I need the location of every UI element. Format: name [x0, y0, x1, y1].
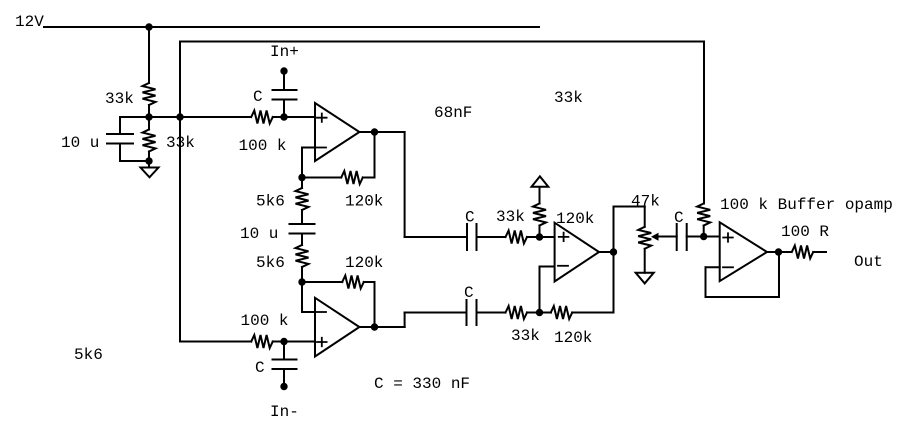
node feedback B	[298, 278, 305, 285]
wire cap bottom to ground node	[120, 160, 149, 162]
wire lower node to opamp C inv	[539, 267, 541, 313]
wire opamp A output	[359, 131, 404, 133]
wire 33k to bias node	[148, 105, 150, 117]
capacitor C lower path	[466, 300, 468, 325]
wire 120k to output A	[363, 177, 375, 179]
svg-text:33k: 33k	[105, 90, 134, 108]
node bias right	[176, 113, 183, 120]
node In- terminal	[280, 383, 287, 390]
capacitor 10u bias	[119, 117, 121, 134]
capacitor 10 u chain	[301, 210, 303, 224]
wire 33k to node	[527, 236, 555, 238]
svg-text:100 R: 100 R	[781, 223, 829, 241]
resistor 100k buffer bias	[697, 204, 710, 226]
svg-text:In-: In-	[270, 403, 299, 421]
wire 100k to opamp B	[273, 341, 315, 343]
svg-text:C: C	[674, 209, 684, 227]
resistor 120k lower feedback	[551, 306, 572, 319]
op-amp C middle	[555, 223, 599, 282]
wire buffer feedback	[705, 267, 707, 297]
wire output C up	[613, 207, 615, 253]
resistor 120k feedback B	[342, 276, 364, 289]
node 12V junction	[145, 23, 152, 30]
wire 12V rail	[44, 26, 539, 28]
svg-text:120k: 120k	[345, 193, 383, 211]
resistor 100 R output	[792, 246, 813, 259]
svg-text:C: C	[464, 284, 474, 302]
resistor 5k6 upper	[296, 188, 309, 210]
resistor 33k lower path	[506, 306, 528, 319]
node opamp A output	[371, 128, 378, 135]
svg-text:C: C	[253, 88, 263, 106]
svg-text:C: C	[465, 209, 475, 227]
wire cap to 33k	[477, 236, 506, 238]
wire 12V to 33k	[148, 27, 150, 83]
capacitor C buffer coupling	[676, 224, 678, 250]
resistor 33k upper bias	[143, 83, 156, 105]
wire 33k to lower node	[527, 312, 551, 314]
node feedback A	[298, 174, 305, 181]
svg-text:C: C	[255, 359, 265, 377]
wire lower path jog	[375, 326, 405, 328]
wire output end	[813, 251, 826, 253]
node middle inv path	[536, 309, 543, 316]
wire top loop rail	[180, 41, 704, 43]
resistor 100 k lower input	[251, 335, 273, 348]
svg-text:68nF: 68nF	[434, 104, 472, 122]
svg-text:100 k Buffer opamp: 100 k Buffer opamp	[720, 196, 893, 214]
wire cap to buffer input	[687, 236, 720, 238]
resistor 120k vertical	[533, 204, 546, 226]
svg-text:In+: In+	[270, 43, 299, 61]
wire opamp C output	[599, 251, 614, 253]
wire loop bottom horizontal	[180, 341, 251, 343]
svg-text:120k: 120k	[556, 210, 594, 228]
op-amp A top	[315, 103, 359, 161]
wire bias rail horizontal	[120, 116, 251, 118]
wire node B to 120k	[302, 281, 342, 283]
op-amp D buffer	[720, 222, 767, 281]
node ground junction	[145, 157, 152, 164]
resistor 120k feedback A	[341, 171, 363, 184]
wire lower path horizontal	[405, 312, 467, 314]
svg-text:120k: 120k	[345, 254, 383, 272]
svg-text:120k: 120k	[554, 329, 592, 347]
node buffer output	[775, 248, 782, 255]
svg-text:5k6: 5k6	[256, 193, 285, 211]
svg-text:33k: 33k	[496, 208, 525, 226]
wire 120k to power arrow	[539, 187, 541, 204]
power arrow up	[532, 176, 549, 186]
svg-text:100 k: 100 k	[239, 137, 287, 155]
wire node A to 120k	[302, 177, 341, 179]
wire bias node to 33k	[148, 117, 150, 130]
node lower input	[280, 338, 287, 345]
wire opamp B output	[359, 326, 404, 328]
svg-text:33k: 33k	[511, 327, 540, 345]
node middle noninv input	[536, 233, 543, 240]
node opamp B output	[371, 323, 378, 330]
wire loop left vertical	[179, 42, 181, 342]
wire 120k to output B	[364, 281, 375, 283]
wire buffer inv input	[706, 266, 720, 268]
node upper input	[280, 113, 287, 120]
svg-text:5k6: 5k6	[256, 254, 285, 272]
capacitor C upper path	[466, 224, 468, 250]
wire 120k to output C	[572, 312, 613, 314]
wire loop right vertical to 100k	[703, 42, 705, 204]
svg-text:C = 330 nF: C = 330 nF	[374, 375, 470, 393]
svg-text:Out: Out	[854, 253, 883, 271]
potentiometer 47k	[644, 207, 646, 227]
wiper arrow 47k	[651, 233, 659, 241]
svg-text:100 k: 100 k	[241, 312, 289, 330]
resistor 5k6 lower	[296, 245, 309, 267]
svg-text:10 u: 10 u	[61, 134, 99, 152]
wire upper path horizontal	[405, 236, 467, 238]
capacitor C In- coupling	[283, 342, 285, 360]
ground 47k	[636, 273, 654, 284]
svg-text:10 u: 10 u	[240, 225, 278, 243]
node In+ terminal	[280, 67, 287, 74]
wire opamp A inv input	[302, 147, 315, 149]
wire upper path vertical	[404, 132, 406, 237]
wire 100k to opamp A	[273, 116, 315, 118]
svg-text:12V: 12V	[15, 13, 44, 31]
wire cap to 33k lower	[477, 312, 506, 314]
node opamp C output	[610, 248, 617, 255]
resistor 100 k upper input	[251, 111, 273, 124]
capacitor C In+ coupling	[283, 71, 285, 90]
svg-text:33k: 33k	[554, 89, 583, 107]
wire 33k to ground node	[148, 152, 150, 162]
svg-text:5k6: 5k6	[74, 346, 103, 364]
node buffer input	[700, 233, 707, 240]
resistor 33k upper path	[506, 231, 528, 244]
wire buffer output	[767, 251, 792, 253]
wire node B to opamp B inv input	[301, 282, 303, 312]
resistor 33k lower bias	[143, 130, 156, 152]
node bias left	[145, 113, 152, 120]
op-amp B bottom	[315, 298, 359, 357]
ground bias network	[148, 161, 150, 168]
